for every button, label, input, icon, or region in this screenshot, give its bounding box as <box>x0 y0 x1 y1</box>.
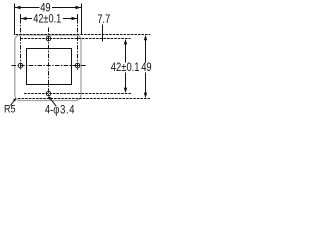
svg-text:φ: φ <box>53 104 59 117</box>
svg-text:3.4: 3.4 <box>60 104 75 117</box>
svg-text:7.7: 7.7 <box>97 13 110 26</box>
svg-text:49: 49 <box>141 61 152 74</box>
svg-text:42±0.1: 42±0.1 <box>111 61 140 74</box>
svg-text:R5: R5 <box>4 104 16 116</box>
svg-text:42±0.1: 42±0.1 <box>33 14 61 26</box>
